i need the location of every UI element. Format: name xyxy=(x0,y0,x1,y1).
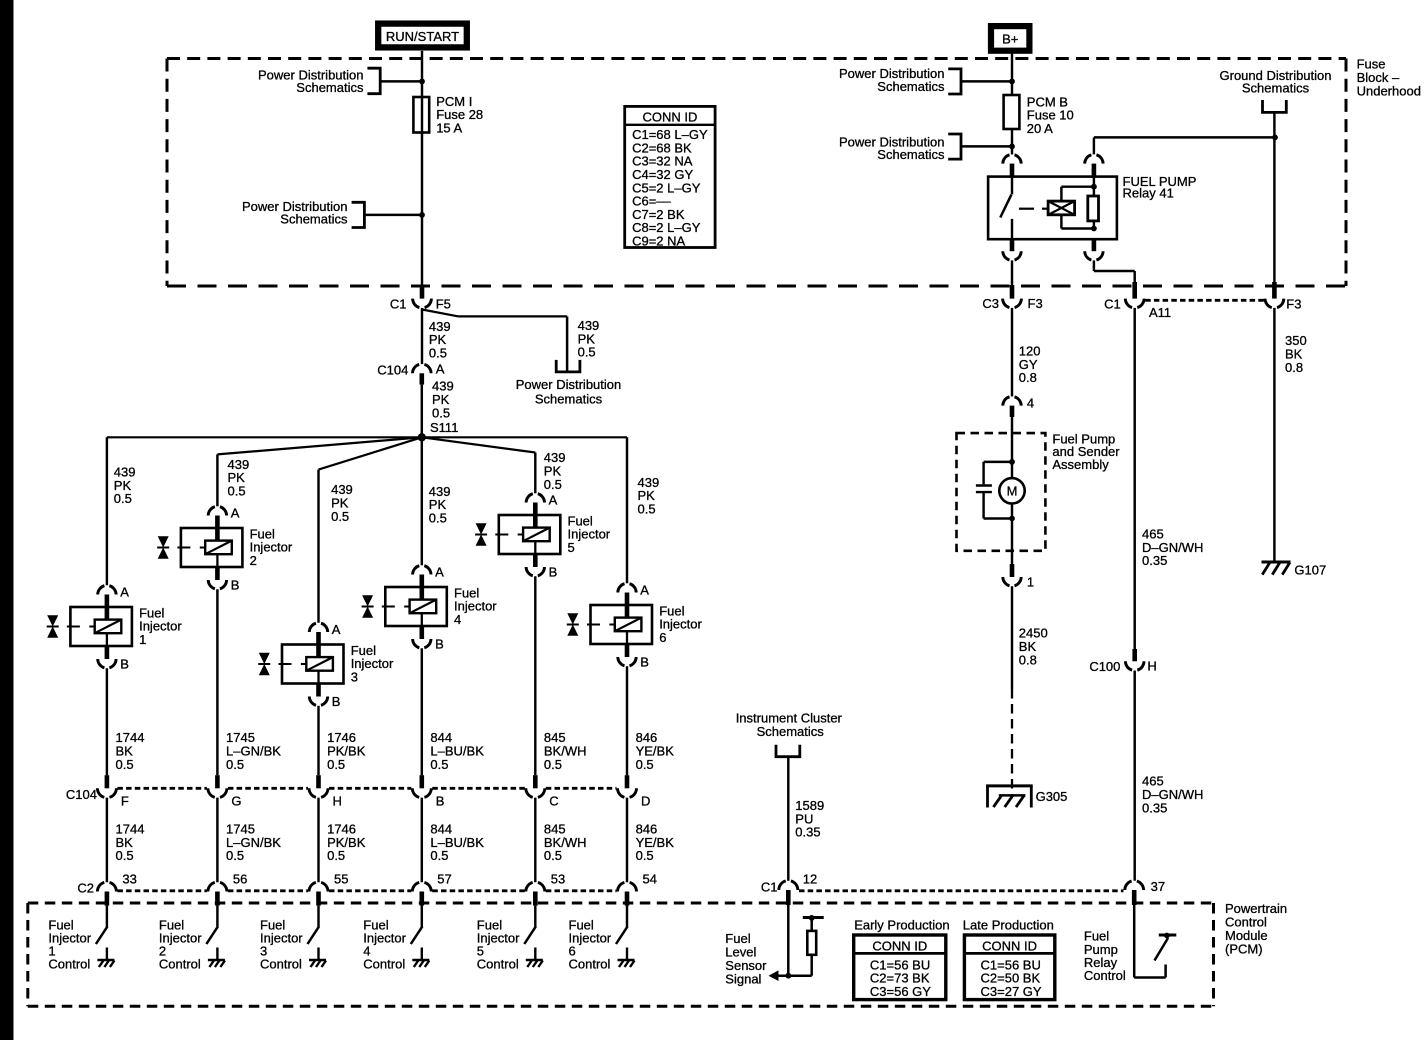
relay 41 switch output connector xyxy=(1010,239,1015,251)
connector C1 pin F5 xyxy=(420,285,425,299)
wire into PCM injector 4 driver xyxy=(421,906,423,927)
dashed actuation link injector 6 xyxy=(587,624,600,626)
injector 5 coil xyxy=(523,528,550,542)
wire relay coil output to C1/A11 xyxy=(1093,260,1095,271)
PCM internal ground injector 1 xyxy=(106,948,108,960)
power source box RUN/START xyxy=(378,24,467,48)
svg-text:G: G xyxy=(231,793,241,808)
splice S111 xyxy=(418,433,426,441)
injector 6 coil xyxy=(615,618,642,632)
wire 439 PK to fuel injector 5 xyxy=(534,453,536,494)
injector 1 nozzle symbol xyxy=(47,615,58,626)
table CONN ID late production xyxy=(964,935,1054,1000)
wire S111 diagonal to injector 5 xyxy=(422,437,536,452)
svg-text:F5: F5 xyxy=(436,297,451,312)
PCM fuel pump relay control driver xyxy=(1133,905,1136,978)
svg-text:0.5: 0.5 xyxy=(429,346,447,361)
fuse PCM I Fuse 28 15A xyxy=(421,97,423,133)
PCM internal ground injector 2 xyxy=(216,948,218,960)
svg-text:Control: Control xyxy=(159,956,201,971)
connector C1 pin A11 xyxy=(1125,299,1144,308)
svg-text:B: B xyxy=(549,565,558,580)
svg-text:20 A: 20 A xyxy=(1027,121,1053,136)
injector 4 nozzle symbol xyxy=(362,595,373,606)
svg-text:C9=2 NA: C9=2 NA xyxy=(632,234,685,249)
svg-text:0.5: 0.5 xyxy=(544,848,562,863)
connector C1 pin 12 xyxy=(779,881,798,890)
svg-text:C2: C2 xyxy=(77,880,94,895)
svg-text:C1: C1 xyxy=(761,879,778,894)
fuel level signal arrow xyxy=(769,970,779,981)
wire 439 PK to fuel injector 4 xyxy=(421,437,423,565)
svg-text:C100: C100 xyxy=(1089,659,1120,674)
svg-text:6: 6 xyxy=(659,630,666,645)
dashed actuation link injector 4 xyxy=(382,606,395,608)
svg-text:3: 3 xyxy=(351,669,358,684)
svg-text:F: F xyxy=(121,793,129,808)
svg-text:CONN ID: CONN ID xyxy=(642,110,697,125)
PCM internal ground injector 3 xyxy=(317,948,319,960)
injector 1 coil xyxy=(95,620,122,634)
fuel pump relay 41 box xyxy=(988,177,1117,240)
powertrain control module dashed box xyxy=(28,902,1214,905)
svg-text:C1: C1 xyxy=(390,297,407,312)
svg-text:0.5: 0.5 xyxy=(226,757,244,772)
injector 6 nozzle symbol xyxy=(567,613,578,624)
svg-text:0.5: 0.5 xyxy=(636,848,654,863)
svg-text:Control: Control xyxy=(260,956,302,971)
dashed actuation link injector 1 xyxy=(67,626,80,628)
svg-text:CONN ID: CONN ID xyxy=(872,938,927,953)
relay 41 coil crossed-box element xyxy=(1048,201,1075,215)
wire 439 PK to fuel injector 1 xyxy=(106,437,108,585)
wire relay output to C3/F3 xyxy=(1011,260,1013,286)
svg-text:A: A xyxy=(436,362,445,377)
svg-text:Schematics: Schematics xyxy=(757,724,825,739)
wire ground distribution to G107 xyxy=(1273,112,1275,286)
wire injector 3 to C104, circuit 1746 xyxy=(317,706,319,776)
driver switch injector 5 control xyxy=(524,926,536,944)
connector pin A of injector 5 xyxy=(526,494,544,503)
driver switch injector 6 control xyxy=(616,926,628,944)
fuel injector 6 box xyxy=(591,605,653,644)
page ref Power Distribution Schematics (branch) xyxy=(556,360,580,372)
fuel injector 1 box xyxy=(70,607,131,646)
wire S111 diagonal to injector 2 xyxy=(217,437,421,454)
svg-text:G107: G107 xyxy=(1294,562,1326,577)
svg-text:B: B xyxy=(436,793,445,808)
svg-text:B: B xyxy=(435,637,444,652)
relay 41 actuation dashed link xyxy=(1019,208,1034,210)
svg-text:A: A xyxy=(332,622,341,637)
power source box B+ xyxy=(991,26,1029,51)
svg-text:Power Distribution: Power Distribution xyxy=(516,377,622,392)
connector C104 pin G xyxy=(215,775,220,788)
wire 439 PK to fuel injector 6 xyxy=(626,437,628,583)
dashed actuation link injector 3 xyxy=(279,663,292,665)
wire into PCM injector 1 driver xyxy=(106,906,108,927)
left page border bar xyxy=(0,0,14,1040)
fuse PCM B Fuse 10 20A xyxy=(1004,95,1020,129)
connector pin 1 fuel pump xyxy=(1003,577,1021,586)
connector C2 pin 57 xyxy=(412,882,431,891)
svg-text:B: B xyxy=(231,578,240,593)
PCM internal ground injector 5 xyxy=(534,948,536,960)
svg-text:0.8: 0.8 xyxy=(1019,370,1037,385)
wire fuse 10 to relay 41 xyxy=(1011,129,1013,155)
wire relay coil to ground distribution xyxy=(1093,137,1095,154)
svg-text:C3=56 GY: C3=56 GY xyxy=(870,984,931,999)
ground G305 xyxy=(986,784,1033,787)
svg-text:Control: Control xyxy=(477,956,519,971)
svg-text:0.5: 0.5 xyxy=(544,477,562,492)
svg-text:C3=27 GY: C3=27 GY xyxy=(981,984,1042,999)
svg-text:A: A xyxy=(640,582,649,597)
svg-text:Control: Control xyxy=(363,956,405,971)
svg-text:55: 55 xyxy=(334,872,348,887)
svg-text:A: A xyxy=(435,564,444,579)
wire into PCM injector 6 driver xyxy=(626,906,628,927)
wire 1589 PU to PCM pin 12 xyxy=(787,757,789,881)
svg-text:A: A xyxy=(120,584,129,599)
connector pin B of injector 5 xyxy=(533,554,538,567)
wire C104 to C2, circuit 1744 xyxy=(106,798,108,883)
connector pin A of injector 4 xyxy=(413,566,431,575)
injector 3 nozzle symbol xyxy=(259,653,270,664)
svg-text:0.5: 0.5 xyxy=(327,757,345,772)
branch wire 439 PK to power distribution xyxy=(422,310,459,317)
relay 41 coil output connector xyxy=(1092,239,1097,251)
svg-text:C104: C104 xyxy=(66,787,97,802)
svg-text:Control: Control xyxy=(569,956,611,971)
svg-text:0.5: 0.5 xyxy=(228,484,246,499)
wire into PCM injector 3 driver xyxy=(317,906,319,927)
connector F3 (ground wire) xyxy=(1272,282,1277,299)
svg-text:0.8: 0.8 xyxy=(1285,360,1303,375)
svg-text:M: M xyxy=(1007,484,1018,499)
junction on battery feed xyxy=(1009,79,1015,85)
svg-text:0.5: 0.5 xyxy=(636,757,654,772)
pump suppression capacitor xyxy=(984,461,1012,463)
relay 41 coil pin connector xyxy=(1085,155,1103,164)
svg-text:F3: F3 xyxy=(1028,296,1043,311)
driver switch injector 3 control xyxy=(308,926,320,944)
connector C3 pin F3 xyxy=(1003,299,1022,308)
svg-text:5: 5 xyxy=(568,540,575,555)
wire C104 to C2, circuit 846 xyxy=(626,798,628,883)
connector C104 pin A xyxy=(413,364,432,373)
svg-text:56: 56 xyxy=(233,872,247,887)
injector 2 coil xyxy=(205,541,232,555)
svg-text:0.8: 0.8 xyxy=(1019,652,1037,667)
svg-text:Signal: Signal xyxy=(725,971,761,986)
wire C1/F5 to C104/A, circuit 439 PK xyxy=(421,308,423,364)
wire injector 5 to C104, circuit 845 xyxy=(534,576,536,775)
wire C104 to C2, circuit 1746 xyxy=(317,798,319,883)
svg-text:0.5: 0.5 xyxy=(226,848,244,863)
svg-text:Control: Control xyxy=(48,956,90,971)
injector 4 coil xyxy=(410,600,437,614)
dotted connector line C1 to F3 xyxy=(1145,299,1264,302)
junction on ignition feed xyxy=(419,212,425,218)
dotted connector line C104 xyxy=(117,787,206,790)
driver switch injector 1 control xyxy=(96,926,108,944)
wire S111 fanout right horizontal xyxy=(422,436,627,438)
connector C104 pin D xyxy=(625,775,630,788)
connector pin B of injector 2 xyxy=(215,567,220,580)
svg-text:A11: A11 xyxy=(1149,305,1171,320)
wire C104 to C2, circuit 1745 xyxy=(216,798,218,883)
svg-text:B+: B+ xyxy=(1002,31,1018,46)
driver switch injector 2 control xyxy=(206,926,218,944)
fuel injector 5 box xyxy=(499,515,561,554)
wire fuse 28 to connector C1/F5 xyxy=(421,133,423,287)
wire into PCM injector 2 driver xyxy=(216,906,218,927)
connector C2 pin 33 xyxy=(97,882,116,891)
svg-text:0.5: 0.5 xyxy=(578,345,596,360)
svg-text:54: 54 xyxy=(643,872,657,887)
svg-text:A: A xyxy=(231,505,240,520)
svg-text:G305: G305 xyxy=(1036,789,1068,804)
relay 41 switch contacts xyxy=(1011,177,1013,195)
wire injector 6 to C104, circuit 846 xyxy=(626,666,628,775)
svg-text:1: 1 xyxy=(1027,575,1034,590)
svg-text:37: 37 xyxy=(1151,879,1165,894)
wire injector 1 to C104, circuit 1744 xyxy=(106,668,108,775)
svg-text:4: 4 xyxy=(1027,395,1034,410)
svg-text:0.5: 0.5 xyxy=(544,757,562,772)
svg-text:D: D xyxy=(641,793,650,808)
svg-text:15 A: 15 A xyxy=(436,121,462,136)
fuel pump motor M xyxy=(999,478,1024,503)
svg-text:Schematics: Schematics xyxy=(1242,81,1310,96)
PCM internal ground injector 6 xyxy=(626,948,628,960)
wire 2450 BK to G305 xyxy=(1011,586,1013,689)
svg-text:(PCM): (PCM) xyxy=(1225,941,1263,956)
wire C104 to C2, circuit 844 xyxy=(421,798,423,883)
wire C1/A11 to C100/H, circuit 465 D-GN/WH xyxy=(1133,308,1135,649)
svg-text:C3: C3 xyxy=(982,296,999,311)
PCM internal ground injector 4 xyxy=(421,948,423,960)
PCM fuel level sensor signal wiring xyxy=(787,905,790,976)
wire C104/A to splice S111, circuit 439 PK xyxy=(421,385,423,438)
fuse block underhood dashed box xyxy=(167,57,1346,60)
junction pump motor bottom xyxy=(1009,516,1015,522)
svg-text:0.5: 0.5 xyxy=(327,848,345,863)
svg-text:0.35: 0.35 xyxy=(1142,800,1167,815)
wire 439 PK to fuel injector 2 xyxy=(216,454,218,506)
svg-text:Underhood: Underhood xyxy=(1357,83,1421,98)
wire 350 BK to G107 xyxy=(1273,308,1275,561)
relay 41 coil resistor xyxy=(1088,196,1099,221)
svg-text:0.5: 0.5 xyxy=(429,511,447,526)
fuel injector 3 box xyxy=(282,645,344,684)
svg-text:53: 53 xyxy=(551,872,565,887)
injector 3 coil xyxy=(306,657,333,671)
connector pin B of injector 4 xyxy=(420,626,425,639)
svg-text:0.5: 0.5 xyxy=(430,848,448,863)
dotted connector line C1 to pin 37 xyxy=(799,889,1124,892)
wire S111 fanout left horizontal xyxy=(107,436,422,438)
fuel pump and sender assembly dashed box xyxy=(957,433,1046,551)
wire B+ to fuse PCM B xyxy=(1011,51,1013,95)
svg-text:Schematics: Schematics xyxy=(877,79,945,94)
relay 41 coil parallel branch wiring xyxy=(1061,185,1094,187)
fuel injector 2 box xyxy=(181,528,243,567)
connector pin A of injector 1 xyxy=(98,586,116,595)
injector 5 nozzle symbol xyxy=(476,523,487,534)
svg-text:Control: Control xyxy=(1084,968,1126,983)
svg-text:A: A xyxy=(549,492,558,507)
wire S111 diagonal to injector 3 xyxy=(319,437,422,469)
svg-text:Assembly: Assembly xyxy=(1052,457,1109,472)
svg-text:0.5: 0.5 xyxy=(430,757,448,772)
junction relay feed xyxy=(1009,144,1015,150)
connector pin A of injector 6 xyxy=(618,584,636,593)
svg-text:H: H xyxy=(1147,659,1156,674)
dotted connector line C2 xyxy=(117,889,206,892)
wire 439 PK to fuel injector 3 xyxy=(317,470,319,623)
wire RUN/START to fuse PCM I xyxy=(421,51,423,97)
connector C2 pin 54 xyxy=(618,882,637,891)
relay 41 switch pin connector xyxy=(1003,155,1021,164)
wire C100/H to PCM pin 37, circuit 465 D-GN/WH xyxy=(1133,671,1135,881)
dashed actuation link injector 5 xyxy=(495,534,508,536)
svg-text:Relay 41: Relay 41 xyxy=(1123,186,1174,201)
junction pump motor top xyxy=(1009,459,1015,465)
connector C104 pin B xyxy=(420,775,425,788)
wire C3/F3 to pump connector 4, circuit 120 GY xyxy=(1011,308,1013,397)
connector pin A of injector 3 xyxy=(309,623,327,632)
svg-text:B: B xyxy=(332,694,341,709)
svg-text:0.5: 0.5 xyxy=(638,502,656,517)
svg-text:C1: C1 xyxy=(1104,297,1121,312)
wire injector 2 to C104, circuit 1745 xyxy=(216,589,218,775)
svg-text:Schematics: Schematics xyxy=(296,80,364,95)
connector pin 4 fuel pump xyxy=(1003,397,1021,406)
table CONN ID (PCM connectors) xyxy=(625,106,715,247)
svg-text:0.5: 0.5 xyxy=(432,405,450,420)
wire pump to connector 1 xyxy=(1011,519,1013,565)
svg-text:0.5: 0.5 xyxy=(116,848,134,863)
svg-text:1: 1 xyxy=(139,632,146,647)
svg-text:B: B xyxy=(120,657,129,672)
table CONN ID early production xyxy=(854,935,946,1000)
connector pin B of injector 1 xyxy=(105,646,110,659)
wire C104 to C2, circuit 845 xyxy=(534,798,536,883)
wire injector 4 to C104, circuit 844 xyxy=(421,648,423,775)
connector C100 pin H xyxy=(1132,649,1137,661)
connector pin A of injector 2 xyxy=(208,507,226,516)
svg-text:Schematics: Schematics xyxy=(535,391,603,406)
svg-text:Early Production: Early Production xyxy=(854,918,949,933)
svg-text:F3: F3 xyxy=(1286,297,1301,312)
ground G107 xyxy=(1262,561,1291,564)
svg-text:CONN ID: CONN ID xyxy=(982,938,1037,953)
connector C2 pin 53 xyxy=(526,882,545,891)
svg-text:2: 2 xyxy=(250,553,257,568)
svg-text:0.5: 0.5 xyxy=(116,757,134,772)
connector C104 pin H xyxy=(316,775,321,788)
svg-text:0.35: 0.35 xyxy=(1142,553,1167,568)
driver switch injector 4 control xyxy=(411,926,423,944)
junction on RUN/START feed xyxy=(419,79,425,85)
svg-text:Schematics: Schematics xyxy=(877,147,945,162)
svg-text:0.5: 0.5 xyxy=(114,491,132,506)
svg-text:0.35: 0.35 xyxy=(795,825,820,840)
svg-text:H: H xyxy=(333,793,342,808)
svg-text:57: 57 xyxy=(437,872,451,887)
svg-text:33: 33 xyxy=(122,872,136,887)
svg-text:C104: C104 xyxy=(377,363,408,378)
svg-text:RUN/START: RUN/START xyxy=(386,29,459,44)
connector C2 pin 55 xyxy=(309,882,328,891)
svg-text:B: B xyxy=(640,655,649,670)
injector 2 nozzle symbol xyxy=(158,536,169,547)
dashed actuation link injector 2 xyxy=(177,547,190,549)
svg-text:Schematics: Schematics xyxy=(280,212,348,227)
svg-text:C: C xyxy=(549,793,558,808)
connector C104 pin C xyxy=(533,775,538,788)
svg-text:Late Production: Late Production xyxy=(963,918,1054,933)
fuel injector 4 box xyxy=(385,587,447,626)
svg-text:0.5: 0.5 xyxy=(331,509,349,524)
svg-text:S111: S111 xyxy=(430,420,458,435)
connector C104 pin F xyxy=(105,775,110,788)
connector C2 pin 56 xyxy=(208,882,227,891)
wire into PCM injector 5 driver xyxy=(534,906,536,927)
svg-text:12: 12 xyxy=(803,872,817,887)
fuel level pull-up resistor xyxy=(810,955,813,976)
connector PCM pin 37 xyxy=(1125,881,1144,890)
svg-text:4: 4 xyxy=(454,612,461,627)
connector pin B of injector 6 xyxy=(625,644,630,657)
connector pin B of injector 3 xyxy=(316,684,321,697)
